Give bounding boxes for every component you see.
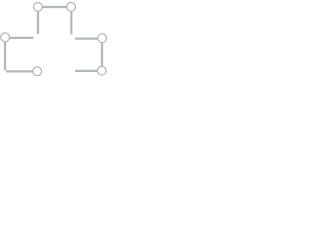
node V4 (98, 34, 107, 43)
wire: stub right from node V3 (open end at x=33.4) (5, 37, 33, 39)
wire: left vertical from corner step up to node V3 (4, 37, 6, 70)
wire: right vertical from node V4 down to node V6 (101, 38, 103, 71)
node V2 (67, 3, 76, 12)
wire: right run from open end x=75.15 to node V4 (75, 37, 102, 39)
wire: bottom-right segment from open end x=75.1 to node V6 (75, 70, 102, 72)
node V6 (97, 66, 106, 75)
node V5 (33, 67, 42, 76)
wire: stub down from node V1 (open end at y=34) (37, 7, 39, 34)
wire: bottom-left run from node V5 left to corner step (6, 70, 37, 72)
wire: top run from node V1 to node V2 (38, 6, 71, 8)
wire: stub down from node V2 (open end at y=34.3) (70, 7, 72, 34)
node V1 (34, 3, 43, 12)
node V3 (1, 33, 10, 42)
